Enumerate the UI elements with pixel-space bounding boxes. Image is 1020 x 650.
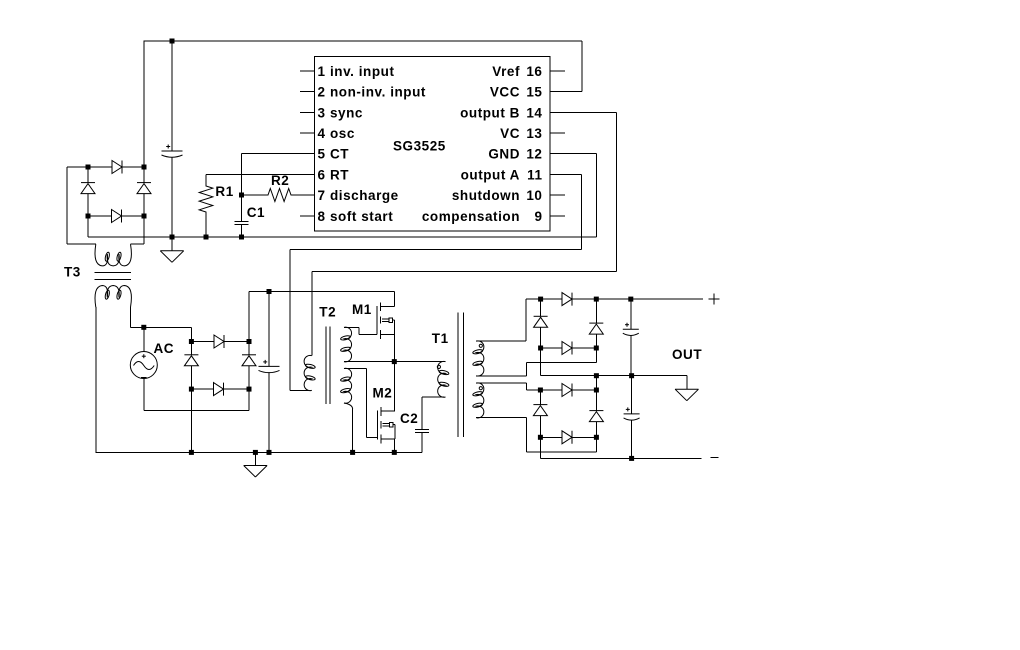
svg-text:osc: osc (330, 126, 355, 141)
wire C1 bottom (241, 225, 243, 238)
svg-text:16: 16 (526, 64, 542, 79)
transformer T3 core (95, 273, 131, 280)
ground symbol VCC filter (171, 237, 173, 251)
diode D2 bridge1 left (87, 167, 89, 216)
svg-text:discharge: discharge (330, 188, 399, 203)
wire bridge1 minus to ground rail (87, 216, 89, 237)
diode D5 bridge2 top (214, 335, 224, 348)
wire bridge2 bottom edge (191, 388, 249, 390)
wire T1 sec1 top to plus rail (476, 299, 526, 341)
node bridge1 TR (142, 165, 147, 170)
svg-text:T2: T2 (319, 305, 336, 320)
resistor R1 (199, 184, 213, 215)
wire bridge1 AC in right to T3 (130, 216, 144, 244)
node bridge1 BL (86, 214, 91, 219)
wire bridge2 top edge (191, 341, 249, 343)
svg-text:CT: CT (330, 147, 349, 162)
svg-text:2: 2 (318, 85, 326, 100)
svg-text:sync: sync (330, 106, 363, 121)
svg-text:AC: AC (154, 341, 175, 356)
wire M2 source to rail (393, 439, 395, 453)
node bridge4 TR (594, 388, 599, 393)
capacitor C1 (235, 221, 249, 224)
wire pin 7 discharge (242, 194, 315, 196)
svg-text:soft start: soft start (330, 209, 393, 224)
transistor M1 MOSFET (377, 302, 395, 339)
transformer T1 secondary 1 coil (476, 341, 484, 376)
node bridge3 BR (594, 346, 599, 351)
svg-text:T3: T3 (64, 265, 81, 280)
svg-text:7: 7 (318, 188, 326, 203)
node bridge3 TR (594, 297, 599, 302)
wire top VCC rail (144, 40, 583, 42)
node bridge4 BR (594, 435, 599, 440)
wire main plus rail (249, 291, 395, 293)
diode D7 bridge2 right (248, 342, 250, 390)
svg-text:6: 6 (318, 168, 326, 183)
wire T1 primary bottom to C2 (422, 397, 444, 430)
node bridge1 BR (142, 214, 147, 219)
diode D9 bridge3 top (562, 293, 572, 306)
label plus terminal (709, 294, 720, 305)
polarity dot T1 sec1 (479, 344, 482, 347)
wire M1 source to midpoint (394, 334, 396, 361)
svg-text:C1: C1 (247, 205, 265, 220)
wire bridge1 AC in left (67, 167, 96, 244)
svg-text:T1: T1 (432, 331, 449, 346)
resistor R2 (266, 189, 293, 202)
svg-text:1: 1 (318, 64, 326, 79)
diode D13 bridge4 top (562, 384, 572, 397)
wire midpoint to M2 drain (393, 362, 395, 412)
wire T3 secondary right to AC node (131, 307, 192, 327)
wire R1 bottom (205, 215, 207, 238)
node gnd cap (170, 235, 175, 240)
svg-text:shutdown: shutdown (452, 188, 520, 203)
node bridge2 TR (247, 339, 252, 344)
wire T2 sec2 bottom to rail (344, 403, 353, 409)
node bridge1 TL (86, 165, 91, 170)
svg-text:8: 8 (318, 209, 326, 224)
svg-text:OUT: OUT (672, 347, 702, 362)
svg-text:output B: output B (460, 106, 520, 121)
wire T2 sec1 bottom / midpoint to T1 (344, 361, 446, 363)
transformer T2 core (326, 327, 330, 404)
svg-text:inv. input: inv. input (330, 64, 395, 79)
label minus terminal (711, 456, 719, 458)
svg-text:9: 9 (534, 209, 542, 224)
node bridge4 TL (538, 388, 543, 393)
node mid rail caps (629, 373, 634, 378)
diode D1 bridge1 top (112, 161, 122, 174)
node bridge3 BL (538, 346, 543, 351)
wire C2 to bottom rail (421, 433, 423, 453)
wire ground rail (88, 236, 597, 238)
diode D15 bridge4 right (595, 390, 597, 437)
transformer T3 secondary coil (95, 286, 131, 308)
wire bridge4 TR riser (595, 376, 597, 390)
diode D12 bridge3 bottom (562, 342, 572, 355)
transformer T3 primary coil (95, 244, 131, 266)
node plus rail cap (628, 297, 633, 302)
capacitor output filter bottom electrolytic (631, 376, 633, 414)
diode D3 bridge1 right (143, 167, 145, 216)
wire T1 sec2 bottom to bridge4 BR (476, 418, 596, 452)
node rail ground stub (253, 450, 258, 455)
node minus rail cap (629, 456, 634, 461)
svg-text:14: 14 (526, 106, 542, 121)
svg-text:15: 15 (526, 85, 542, 100)
wire T1 sec1 bottom to bridge3 BR (476, 348, 596, 376)
node gnd C1 (239, 235, 244, 240)
transformer T2 secondary 1 coil (344, 327, 352, 362)
wire bridge1 top edge (88, 166, 144, 168)
svg-text:output A: output A (461, 168, 520, 183)
transformer T1 core (458, 313, 464, 438)
node CT / R2 junction (239, 193, 244, 198)
diode D14 bridge4 left (539, 390, 541, 437)
ground symbol main (254, 452, 256, 465)
node rail T2 secondary return (350, 450, 355, 455)
wire bridge4 top edge (540, 389, 596, 391)
node AC source top (141, 325, 146, 330)
diode D4 bridge1 bottom (112, 210, 122, 223)
wire output plus rail (526, 298, 703, 300)
svg-text:R2: R2 (271, 173, 289, 188)
svg-text:non-inv. input: non-inv. input (330, 85, 426, 100)
node M1 source / M2 drain midpoint (392, 359, 397, 364)
svg-text:VCC: VCC (490, 85, 520, 100)
wire output minus rail (540, 437, 701, 458)
node bridge2 TL (189, 339, 194, 344)
svg-text:Vref: Vref (492, 64, 520, 79)
wire mid output rail to ground (541, 348, 687, 389)
svg-text:M2: M2 (373, 386, 393, 401)
wire AC bottom to bridge2 right (144, 379, 249, 411)
svg-text:RT: RT (330, 168, 349, 183)
capacitor main filter electrolytic (268, 292, 270, 367)
wire bridge4 bottom edge (540, 436, 596, 438)
svg-text:12: 12 (526, 147, 542, 162)
node top rail / filter cap junction (170, 39, 175, 44)
wire plus rail to M1 drain (394, 292, 396, 307)
transformer T2 secondary 2 coil (344, 368, 352, 403)
svg-text:3: 3 (318, 106, 326, 121)
capacitor VCC filter electrolytic (171, 41, 173, 151)
svg-text:VC: VC (500, 126, 520, 141)
wire T2 sec1 top to M1 gate (344, 327, 377, 334)
svg-text:4: 4 (318, 126, 326, 141)
transformer T1 primary coil (438, 361, 446, 397)
node rail filter cap (267, 450, 272, 455)
AC source (143, 327, 145, 351)
diode D10 bridge3 left (540, 299, 542, 348)
svg-text:M1: M1 (352, 302, 372, 317)
svg-text:13: 13 (526, 126, 542, 141)
op-amp U1 SG3525 PWM controller box (315, 57, 551, 232)
wire pin 14 output B to T2 primary top (312, 113, 617, 356)
wire bridge2 from AC node (190, 327, 192, 341)
svg-text:R1: R1 (215, 184, 233, 199)
wire pin 5 CT (242, 154, 315, 222)
svg-text:compensation: compensation (422, 209, 520, 224)
svg-text:11: 11 (527, 168, 542, 183)
capacitor output filter top electrolytic (630, 299, 632, 329)
diode D11 bridge3 right (595, 299, 597, 348)
wire bridge1 plus to top rail (143, 41, 145, 167)
wire T3 secondary left to bottom rail (95, 307, 97, 452)
node gnd R1 (204, 235, 209, 240)
capacitor C2 (415, 430, 429, 433)
wire bridge2 plus riser (248, 292, 250, 342)
node bridge4 BL (538, 435, 543, 440)
diode D8 bridge2 bottom (214, 383, 224, 396)
node bridge3 TL (538, 297, 543, 302)
wire VCC riser to pin 15 (550, 41, 582, 92)
node mid rail bridge4 (594, 373, 599, 378)
wire T1 sec2 top to bridge4 TL (476, 383, 540, 390)
polarity dot T1 primary (437, 365, 440, 368)
wire bridge3 bottom edge (541, 347, 597, 349)
node rail bridge2 (189, 450, 194, 455)
svg-text:C2: C2 (400, 411, 418, 426)
node plus rail / filter cap (267, 289, 272, 294)
wire bridge1 bottom edge (88, 215, 144, 217)
wire bottom ground rail (96, 451, 422, 453)
svg-text:SG3525: SG3525 (393, 139, 446, 154)
svg-text:10: 10 (526, 188, 542, 203)
wire bridge2 minus to bottom rail (190, 389, 192, 452)
ground symbol output (675, 388, 698, 390)
polarity dot T1 sec2 (479, 387, 482, 390)
svg-text:5: 5 (318, 147, 326, 162)
node bridge2 BL (189, 387, 194, 392)
transformer T2 primary coil (304, 355, 312, 390)
diode D16 bridge4 bottom (562, 431, 572, 444)
node rail M2 source (392, 450, 397, 455)
diode D6 bridge2 left (190, 342, 192, 390)
wire pin 6 RT (206, 175, 315, 184)
transformer T1 secondary 2 coil (476, 383, 484, 418)
transistor M2 MOSFET (377, 407, 395, 444)
wire pin 11 output A to T2 primary bottom (290, 175, 582, 391)
node bridge2 BR (247, 387, 252, 392)
svg-text:GND: GND (488, 147, 520, 162)
wire T2 sec2 top to M2 gate (344, 369, 377, 438)
wire pin 12 GND (550, 154, 597, 238)
